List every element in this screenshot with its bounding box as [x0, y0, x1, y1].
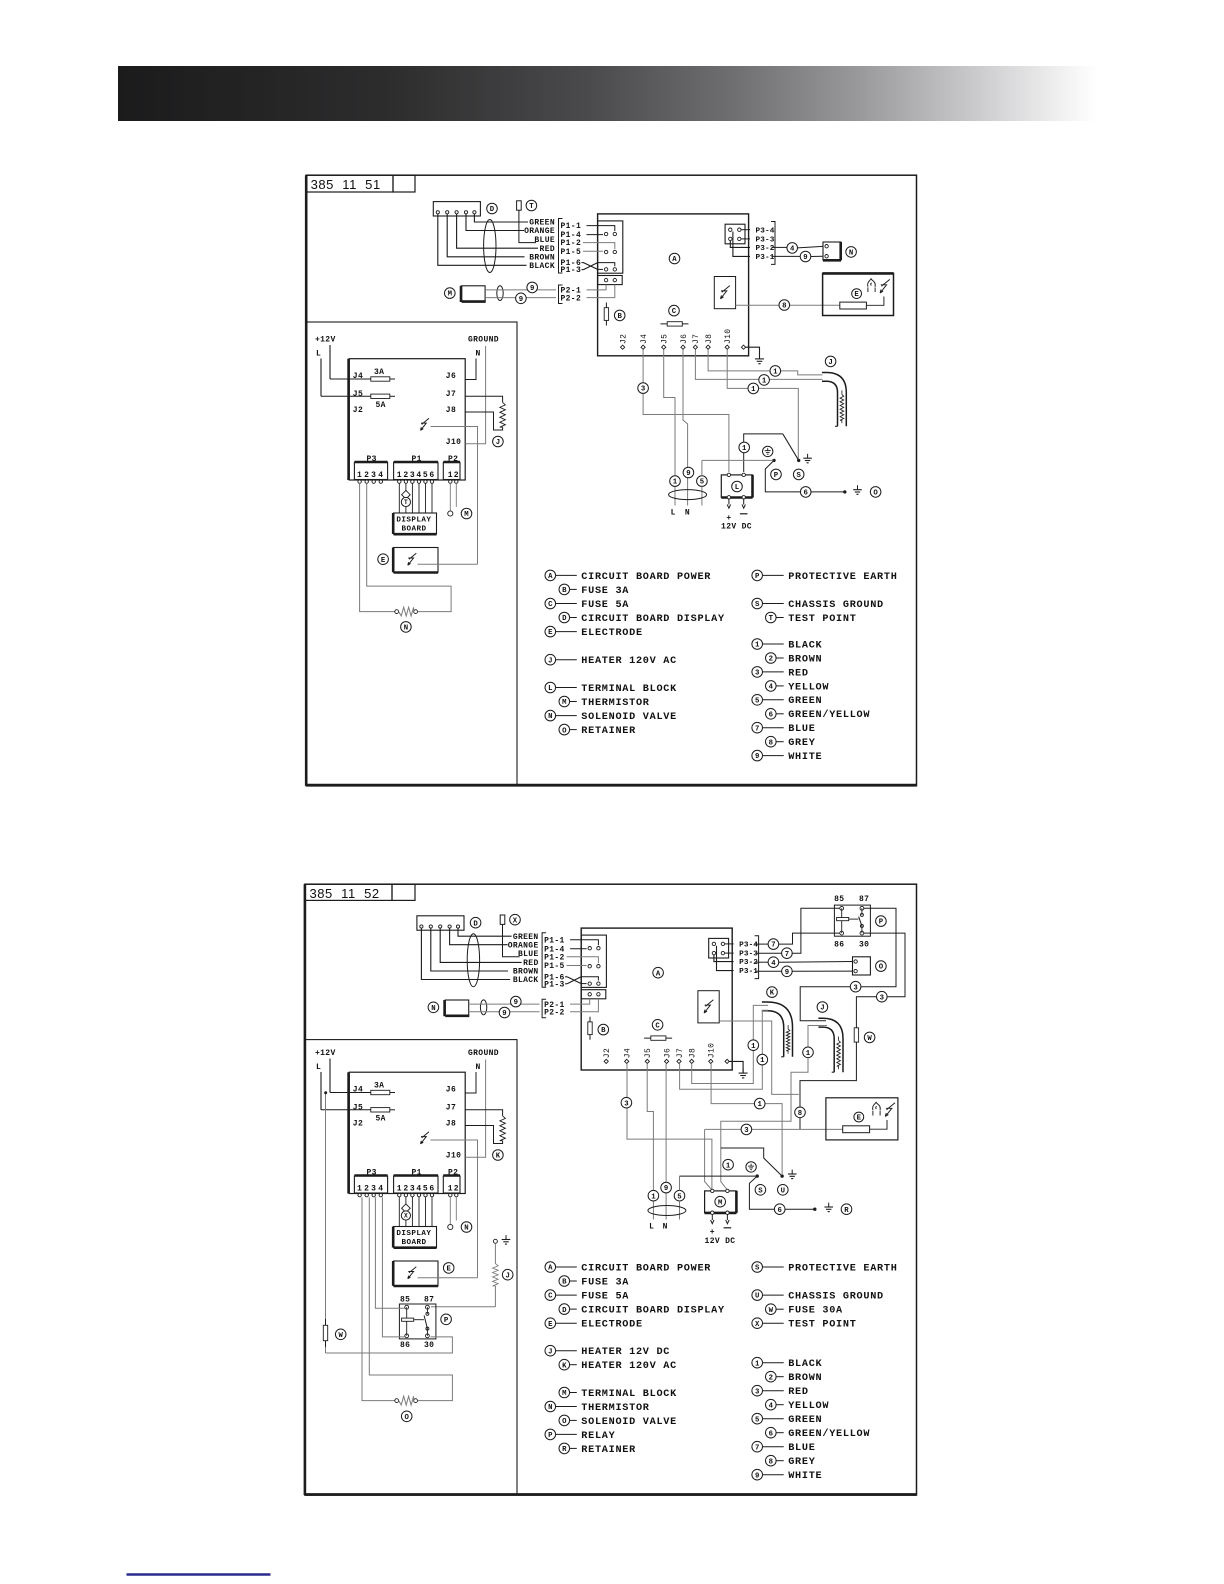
- svg-text:1: 1: [755, 1360, 760, 1368]
- P2 receptacle on board: [581, 990, 606, 999]
- L feed wire: [320, 359, 322, 397]
- svg-text:5: 5: [755, 1416, 759, 1424]
- svg-text:B: B: [601, 1027, 606, 1035]
- svg-text:86: 86: [400, 1341, 410, 1350]
- d1 chassis ground contact and switch: [797, 459, 800, 462]
- diagram 1 title block: [306, 175, 393, 192]
- d2 J4 red wire to terminal M: [626, 1064, 628, 1097]
- svg-text:J: J: [496, 439, 500, 447]
- svg-text:BOARD: BOARD: [402, 1239, 427, 1247]
- svg-text:X: X: [755, 1321, 760, 1329]
- footer rule: [127, 1573, 271, 1575]
- d2 heater K feeds from J7 J8 with black(1): [692, 1051, 754, 1084]
- svg-text:P3-2: P3-2: [756, 245, 775, 253]
- svg-text:N: N: [431, 1005, 435, 1013]
- diagram 2 sub-panel frame: [305, 1040, 517, 1495]
- svg-text:HEATER 120V AC: HEATER 120V AC: [581, 656, 677, 667]
- svg-text:HEATER 120V AC: HEATER 120V AC: [581, 1361, 677, 1372]
- svg-text:L: L: [671, 508, 676, 517]
- svg-text:D: D: [473, 920, 478, 928]
- svg-text:385 11 51: 385 11 51: [311, 177, 381, 192]
- electrode wire: [418, 1277, 478, 1279]
- svg-text:9: 9: [785, 969, 789, 977]
- svg-text:A: A: [548, 573, 553, 581]
- svg-text:9: 9: [530, 285, 534, 293]
- svg-text:8: 8: [782, 303, 786, 311]
- d2 heater J return wire black(1) to terminal M: [808, 1026, 827, 1048]
- igniter on board: [698, 991, 719, 1023]
- svg-text:1: 1: [397, 1185, 402, 1194]
- P3 internal wires: [725, 943, 734, 945]
- svg-text:7: 7: [785, 951, 789, 959]
- svg-text:BLUE: BLUE: [788, 1443, 815, 1454]
- svg-text:P: P: [755, 573, 760, 581]
- svg-text:CIRCUIT BOARD POWER: CIRCUIT BOARD POWER: [581, 1263, 711, 1274]
- svg-text:+: +: [726, 514, 731, 523]
- svg-text:2: 2: [454, 471, 459, 480]
- svg-text:J8: J8: [689, 1048, 698, 1058]
- svg-text:WHITE: WHITE: [788, 752, 822, 763]
- svg-text:CHASSIS GROUND: CHASSIS GROUND: [788, 1292, 884, 1303]
- svg-text:12V DC: 12V DC: [721, 523, 752, 532]
- svg-text:J5: J5: [353, 390, 363, 399]
- svg-text:O: O: [873, 490, 878, 498]
- connector D (circuit board display plug): [417, 916, 464, 930]
- diagram 1 sub-panel frame: [306, 322, 517, 785]
- fuse C 5A on board: [644, 1037, 672, 1039]
- svg-text:M: M: [718, 1199, 723, 1207]
- svg-text:BROWN: BROWN: [788, 654, 822, 665]
- svg-text:SOLENOID VALVE: SOLENOID VALVE: [581, 712, 677, 723]
- d2 protective earth node: [746, 1162, 756, 1172]
- svg-text:RELAY: RELAY: [581, 1431, 615, 1442]
- svg-text:4: 4: [769, 1402, 774, 1410]
- board chassis pin to earth: [729, 1061, 743, 1073]
- svg-text:FUSE 5A: FUSE 5A: [581, 1292, 629, 1303]
- svg-text:9: 9: [664, 1185, 668, 1193]
- svg-text:3: 3: [410, 471, 415, 480]
- svg-text:O: O: [562, 1418, 567, 1426]
- svg-text:4: 4: [378, 1185, 383, 1194]
- svg-text:YELLOW: YELLOW: [788, 1401, 829, 1412]
- d2 sub-panel chassis ground and heater J coil: [493, 1239, 497, 1243]
- svg-text:P: P: [774, 472, 779, 480]
- d2 wires P3 pins 3,4 to sub relay: [375, 1197, 404, 1308]
- cable grommet ellipse: [467, 934, 479, 987]
- svg-text:P1-5: P1-5: [544, 962, 565, 971]
- svg-text:CHASSIS GROUND: CHASSIS GROUND: [788, 600, 884, 611]
- svg-text:P3-4: P3-4: [739, 942, 758, 950]
- P3 internal wires: [741, 229, 750, 231]
- svg-text:RETAINER: RETAINER: [581, 1445, 636, 1456]
- svg-text:GREEN/YELLOW: GREEN/YELLOW: [788, 1428, 870, 1440]
- test point wire to P1-2 row: [519, 210, 536, 242]
- svg-text:+: +: [710, 1228, 715, 1237]
- N wire to J6: [465, 1072, 476, 1093]
- thermistor wires with white(9) codes: [469, 1003, 540, 1005]
- svg-text:K: K: [562, 1362, 567, 1370]
- svg-text:C: C: [548, 1293, 553, 1301]
- svg-text:GREEN: GREEN: [788, 1415, 822, 1426]
- svg-text:4: 4: [769, 684, 774, 692]
- d1 heater J 120V AC: [822, 373, 846, 427]
- svg-text:J4: J4: [624, 1048, 633, 1058]
- d2 sub relay 30 to fuse W 30A to +12V: [326, 1337, 453, 1353]
- svg-text:1: 1: [751, 386, 756, 394]
- svg-text:87: 87: [424, 1296, 434, 1305]
- svg-text:J4: J4: [640, 334, 649, 344]
- svg-text:1: 1: [448, 471, 453, 480]
- svg-text:N: N: [548, 1404, 552, 1412]
- d2 chassis switch arm from terminal net: [721, 1148, 782, 1176]
- svg-text:J6: J6: [663, 1048, 672, 1058]
- svg-text:J: J: [828, 359, 832, 367]
- L feed wire: [320, 1072, 322, 1110]
- svg-text:P3-1: P3-1: [739, 968, 758, 976]
- svg-text:E: E: [854, 291, 859, 299]
- diagram 2 outer frame: [305, 884, 917, 1495]
- svg-text:2: 2: [403, 471, 408, 480]
- svg-text:P3-1: P3-1: [756, 254, 775, 262]
- svg-text:9: 9: [755, 1472, 759, 1480]
- svg-text:2: 2: [769, 656, 773, 664]
- d2 mains L N wires: [647, 1064, 653, 1190]
- svg-text:P3-4: P3-4: [756, 227, 775, 235]
- P1 receptacle on board: [598, 221, 623, 273]
- solenoid valve N box: [823, 242, 841, 260]
- svg-text:BLACK: BLACK: [513, 976, 539, 985]
- svg-text:HEATER 12V DC: HEATER 12V DC: [581, 1347, 670, 1358]
- svg-text:1: 1: [742, 445, 747, 453]
- d1 protective earth node: [763, 446, 773, 456]
- svg-text:GREEN: GREEN: [788, 696, 822, 707]
- svg-text:2: 2: [403, 1185, 408, 1194]
- svg-text:J5: J5: [661, 334, 670, 344]
- svg-text:4: 4: [790, 246, 795, 254]
- fuse B 3A on board: [589, 1017, 591, 1040]
- svg-text:R: R: [562, 1446, 567, 1454]
- svg-text:C: C: [655, 1022, 660, 1030]
- d2 sub fuse W 30A: [325, 1319, 327, 1347]
- svg-text:RED: RED: [788, 1387, 809, 1398]
- d2 sub-panel relay P: [399, 1304, 436, 1339]
- svg-text:1: 1: [773, 369, 778, 377]
- svg-text:P: P: [548, 1432, 553, 1440]
- svg-text:J6: J6: [680, 334, 689, 344]
- svg-text:K: K: [770, 990, 775, 998]
- svg-text:7: 7: [755, 1444, 759, 1452]
- svg-text:3: 3: [641, 386, 646, 394]
- svg-text:BLACK: BLACK: [788, 640, 822, 651]
- svg-text:CIRCUIT BOARD DISPLAY: CIRCUIT BOARD DISPLAY: [581, 1306, 725, 1317]
- svg-text:1: 1: [760, 1057, 765, 1065]
- electrode box E: [394, 1261, 438, 1286]
- svg-text:4: 4: [416, 1185, 421, 1194]
- fuse C 5A on board: [661, 323, 689, 325]
- P1 bracket: [559, 219, 563, 274]
- svg-text:E: E: [548, 629, 553, 637]
- svg-text:TEST POINT: TEST POINT: [788, 1320, 856, 1331]
- svg-text:K: K: [496, 1153, 501, 1161]
- d1 wires P3 to solenoid valve N: [772, 246, 787, 248]
- board bottom pin row J2-J10: [604, 1059, 608, 1063]
- d2 electrode assembly box E: [826, 1098, 898, 1140]
- d2 terminal block M: [705, 1191, 737, 1213]
- test point diamond T: [402, 490, 411, 499]
- d2 wires P3 to solenoid O with yellow(4) white(9): [755, 961, 768, 963]
- test point X: [500, 915, 505, 924]
- svg-text:J7: J7: [692, 334, 701, 344]
- d2 chassis ground point: [780, 1174, 783, 1177]
- d1 electrode assembly box E: [823, 273, 894, 315]
- test point T: [517, 201, 522, 210]
- svg-text:U: U: [781, 1187, 785, 1195]
- svg-text:1: 1: [397, 471, 402, 480]
- sub heater coil K from J7/J8: [465, 1110, 502, 1116]
- d1 solenoid valve N loop from P3 pins: [360, 483, 395, 611]
- svg-text:J6: J6: [446, 1085, 456, 1094]
- svg-text:P1-2: P1-2: [544, 953, 565, 962]
- svg-text:CIRCUIT BOARD DISPLAY: CIRCUIT BOARD DISPLAY: [581, 614, 725, 625]
- d2 igniter wire to electrode with grey(8): [719, 1021, 798, 1094]
- svg-text:N: N: [476, 350, 481, 359]
- svg-text:J10: J10: [446, 1152, 461, 1161]
- svg-text:S: S: [797, 472, 802, 480]
- svg-text:J8: J8: [446, 1120, 456, 1129]
- display circuit board box: [349, 359, 465, 480]
- igniter bolt in display board: [421, 418, 430, 430]
- svg-text:O: O: [405, 1414, 410, 1422]
- d2 relay P (main): [834, 905, 870, 936]
- svg-text:3A: 3A: [374, 368, 384, 377]
- d1 mains wires L N from J4 J5 J6: [642, 350, 644, 383]
- svg-text:CIRCUIT BOARD POWER: CIRCUIT BOARD POWER: [581, 572, 711, 583]
- svg-text:3: 3: [880, 994, 885, 1002]
- svg-text:2: 2: [364, 471, 369, 480]
- d1 12V DC output arrows: [728, 499, 730, 505]
- svg-text:BLUE: BLUE: [534, 236, 555, 245]
- svg-text:N: N: [849, 250, 853, 258]
- svg-text:P3-3: P3-3: [756, 237, 775, 245]
- svg-text:P2-2: P2-2: [561, 294, 582, 303]
- svg-text:J8: J8: [705, 334, 714, 344]
- svg-text:N: N: [476, 1063, 481, 1072]
- electrode wire: [418, 563, 478, 565]
- svg-text:4: 4: [416, 471, 421, 480]
- board A outline: [598, 214, 749, 356]
- svg-text:BLACK: BLACK: [529, 262, 555, 271]
- svg-text:RED: RED: [788, 668, 809, 679]
- svg-text:TERMINAL BLOCK: TERMINAL BLOCK: [581, 1389, 677, 1400]
- svg-text:12V DC: 12V DC: [705, 1237, 736, 1246]
- svg-text:30: 30: [424, 1341, 434, 1350]
- svg-text:W: W: [867, 1035, 872, 1043]
- svg-text:8: 8: [798, 1110, 802, 1118]
- svg-text:ELECTRODE: ELECTRODE: [581, 1320, 643, 1331]
- board bottom pin row J2-J10: [621, 345, 625, 349]
- svg-text:X: X: [404, 1213, 408, 1220]
- svg-text:D: D: [490, 206, 495, 214]
- svg-text:YELLOW: YELLOW: [788, 682, 829, 693]
- svg-text:W: W: [769, 1307, 774, 1315]
- svg-text:P2-2: P2-2: [544, 1009, 565, 1018]
- thermistor M: [445, 288, 456, 299]
- ground wire to J10: [465, 346, 485, 444]
- svg-text:9: 9: [755, 753, 759, 761]
- d2 J10 wire to chassis switch black(1): [711, 1064, 754, 1104]
- svg-text:P1-3: P1-3: [544, 980, 565, 989]
- svg-text:E: E: [381, 557, 386, 565]
- DISPLAY BOARD box: [394, 1227, 437, 1248]
- svg-text:85: 85: [400, 1296, 410, 1305]
- svg-text:30: 30: [859, 941, 869, 950]
- svg-text:L: L: [649, 1223, 654, 1232]
- svg-text:P1-2: P1-2: [561, 239, 582, 248]
- svg-text:6: 6: [778, 1207, 782, 1215]
- svg-text:5: 5: [423, 471, 428, 480]
- svg-text:PROTECTIVE EARTH: PROTECTIVE EARTH: [788, 572, 897, 583]
- N wire to J6: [465, 359, 476, 380]
- svg-text:J: J: [548, 1348, 552, 1356]
- thermistor wires with white(9) codes: [485, 289, 556, 291]
- svg-text:FUSE 3A: FUSE 3A: [581, 1278, 629, 1289]
- svg-text:3A: 3A: [374, 1082, 384, 1091]
- svg-text:5A: 5A: [376, 401, 386, 410]
- display circuit board box: [349, 1072, 465, 1193]
- svg-text:THERMISTOR: THERMISTOR: [581, 698, 650, 709]
- svg-text:E: E: [548, 1321, 553, 1329]
- svg-text:O: O: [562, 727, 567, 735]
- svg-text:TERMINAL BLOCK: TERMINAL BLOCK: [581, 684, 677, 695]
- svg-text:N: N: [404, 625, 408, 633]
- board label A: [669, 253, 680, 264]
- svg-text:N: N: [685, 508, 690, 517]
- svg-text:1: 1: [357, 1185, 362, 1194]
- svg-text:P1-1: P1-1: [561, 222, 582, 231]
- svg-text:3: 3: [755, 670, 760, 678]
- P1 receptacle on board: [581, 935, 606, 987]
- svg-text:E: E: [857, 1115, 862, 1123]
- test point diamond X: [402, 1204, 411, 1213]
- svg-text:L: L: [548, 685, 552, 693]
- svg-text:3: 3: [624, 1100, 629, 1108]
- svg-text:6: 6: [769, 711, 773, 719]
- svg-text:ORANGE: ORANGE: [524, 227, 555, 236]
- svg-text:GREY: GREY: [788, 1457, 816, 1468]
- P1 wires to display board connector: [398, 1197, 400, 1227]
- svg-text:ELECTRODE: ELECTRODE: [581, 628, 643, 639]
- svg-text:2: 2: [364, 1185, 369, 1194]
- d1 heater feed wires from J8 and J7 with black(1) codes: [708, 350, 775, 371]
- svg-text:5A: 5A: [376, 1115, 386, 1124]
- svg-text:O: O: [879, 964, 884, 972]
- svg-text:S: S: [755, 601, 760, 609]
- svg-text:J7: J7: [446, 390, 456, 399]
- svg-text:ORANGE: ORANGE: [508, 941, 539, 950]
- d2 sub heater coil wire to relay 87: [431, 1306, 496, 1308]
- cable grommet ellipse: [484, 220, 496, 273]
- svg-text:J2: J2: [353, 1120, 363, 1129]
- P1 wires to display board connector: [398, 483, 400, 513]
- svg-text:P1-1: P1-1: [544, 936, 565, 945]
- svg-text:5: 5: [677, 1193, 681, 1201]
- svg-text:8: 8: [769, 1458, 773, 1466]
- svg-text:A: A: [672, 256, 677, 264]
- svg-text:J2: J2: [619, 334, 628, 344]
- svg-text:J5: J5: [353, 1104, 363, 1113]
- d2 green/yellow(6) to chassis with retainer R: [785, 1208, 815, 1210]
- P2 wires to thermistor: [449, 483, 451, 511]
- crossed wires P1-6 / P1-3: [582, 262, 584, 264]
- svg-text:385 11 52: 385 11 52: [310, 886, 380, 901]
- svg-text:9: 9: [514, 999, 518, 1007]
- svg-text:C: C: [672, 308, 677, 316]
- svg-text:J5: J5: [644, 1048, 653, 1058]
- svg-text:BLACK: BLACK: [788, 1359, 822, 1370]
- wires P1 labels to board pins: [570, 940, 598, 945]
- svg-text:N: N: [548, 713, 552, 721]
- svg-text:L: L: [316, 1063, 321, 1072]
- svg-text:3: 3: [410, 1185, 415, 1194]
- svg-text:P: P: [879, 919, 884, 927]
- svg-text:N: N: [464, 1225, 468, 1233]
- svg-text:GREY: GREY: [788, 738, 816, 749]
- d2 fuse W 30A: [855, 1022, 857, 1048]
- svg-text:SOLENOID VALVE: SOLENOID VALVE: [581, 1417, 677, 1428]
- svg-text:A: A: [656, 970, 661, 978]
- board chassis pin to earth: [746, 347, 760, 359]
- igniter bolt in display board: [421, 1132, 430, 1144]
- svg-text:6: 6: [804, 490, 808, 498]
- d2 legend: [545, 1262, 556, 1273]
- svg-text:W: W: [339, 1332, 344, 1340]
- d2 heater K 120V AC: [762, 1002, 793, 1057]
- d2 12V DC arrows: [711, 1215, 713, 1221]
- svg-text:BROWN: BROWN: [788, 1373, 822, 1384]
- svg-text:5: 5: [755, 697, 759, 705]
- svg-text:S: S: [755, 1265, 760, 1273]
- svg-text:RETAINER: RETAINER: [581, 726, 636, 737]
- wires connector D to colour labels: [474, 214, 528, 222]
- svg-text:6: 6: [429, 471, 434, 480]
- svg-text:1: 1: [448, 1185, 453, 1194]
- ground wire to J10: [465, 1060, 485, 1158]
- diagram 2 title block: [305, 884, 392, 900]
- svg-text:5: 5: [700, 479, 704, 487]
- connector D (circuit board display plug): [433, 202, 480, 216]
- svg-text:D: D: [562, 615, 567, 623]
- svg-text:6: 6: [769, 1430, 773, 1438]
- d1 J10 wire to chassis switch with black(1): [727, 350, 748, 389]
- svg-text:TEST POINT: TEST POINT: [788, 614, 856, 625]
- svg-text:R: R: [844, 1207, 849, 1215]
- svg-text:1: 1: [751, 1043, 756, 1051]
- svg-text:X: X: [513, 917, 518, 925]
- svg-text:3: 3: [371, 471, 376, 480]
- svg-text:GREEN/YELLOW: GREEN/YELLOW: [788, 709, 870, 721]
- P3 receptacle on board: [725, 224, 745, 244]
- svg-text:B: B: [562, 587, 567, 595]
- svg-text:5: 5: [423, 1185, 428, 1194]
- svg-text:T: T: [404, 499, 408, 506]
- svg-text:J10: J10: [708, 1043, 717, 1058]
- wires connector D to colour labels: [458, 928, 512, 936]
- svg-text:L: L: [735, 484, 739, 492]
- svg-text:J8: J8: [446, 406, 456, 415]
- fuse B 3A on board: [605, 303, 607, 326]
- svg-text:P1-3: P1-3: [561, 266, 582, 275]
- svg-text:GROUND: GROUND: [468, 1049, 499, 1058]
